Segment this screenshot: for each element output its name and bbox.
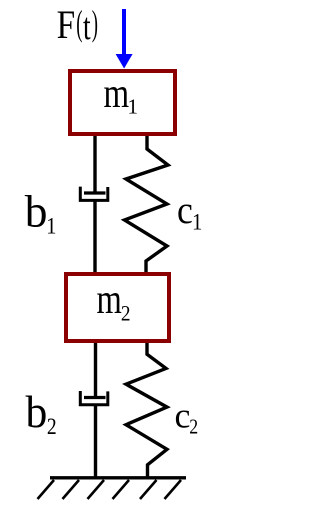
svg-text:2: 2 <box>121 302 131 325</box>
damper b1 cylinder cup <box>80 187 108 201</box>
ground hatch 4 <box>113 480 130 499</box>
ground line <box>50 476 186 479</box>
svg-text:m: m <box>97 277 122 323</box>
spring label c1 <box>177 189 202 234</box>
mass m1 box <box>70 71 175 134</box>
svg-text:(: ( <box>76 4 82 44</box>
damper label b2 <box>26 386 57 440</box>
wire m1 to damper b1 <box>93 136 96 192</box>
svg-text:m: m <box>104 70 130 117</box>
svg-text:1: 1 <box>46 213 56 238</box>
ground hatch 6 <box>165 480 182 499</box>
svg-text:b: b <box>26 386 48 437</box>
svg-text:F: F <box>57 3 76 48</box>
damper label b1 <box>25 185 57 238</box>
svg-text:c: c <box>175 396 191 436</box>
spring label c2 <box>175 396 199 439</box>
svg-text:b: b <box>25 185 48 236</box>
mass m2 box <box>66 274 169 341</box>
force label F(t) <box>57 3 98 48</box>
ground hatch 1 <box>38 480 55 499</box>
wire m2 to damper b2 <box>94 343 97 396</box>
svg-text:1: 1 <box>192 210 202 235</box>
spring c1 <box>125 136 169 273</box>
ground hatch 2 <box>63 480 80 499</box>
damper b1 piston plate <box>84 191 106 194</box>
svg-text:): ) <box>92 4 98 44</box>
ground hatch 5 <box>140 480 157 499</box>
damper b2 cylinder cup <box>80 391 108 405</box>
mass m2 label <box>97 277 131 325</box>
svg-text:1: 1 <box>128 95 139 119</box>
mass m1 label <box>104 70 138 119</box>
wire damper b1 to m2 <box>93 200 96 273</box>
spring c2 <box>126 343 167 477</box>
force arrow F(t) <box>116 9 133 69</box>
ground hatch 3 <box>88 480 105 499</box>
wire damper b2 to ground <box>94 405 97 478</box>
svg-text:t: t <box>83 6 91 48</box>
svg-text:c: c <box>177 189 193 232</box>
svg-text:2: 2 <box>47 414 57 440</box>
svg-text:2: 2 <box>189 416 198 439</box>
damper b2 piston plate <box>84 396 106 399</box>
